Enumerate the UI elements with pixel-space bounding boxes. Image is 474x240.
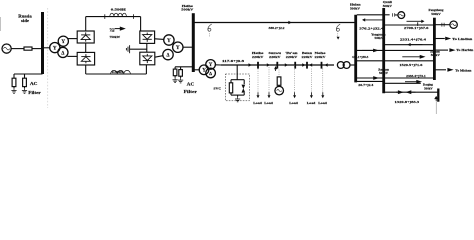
wire V4 to T2 [155,56,164,58]
injection arrow (up) [274,66,277,69]
svg-text:Y: Y [167,38,171,44]
power flow arrow (left) [309,63,312,66]
bus: Xunke 220kV [294,62,296,69]
svg-text:Y: Y [61,39,65,45]
tick junction [133,14,135,19]
svg-text:20.7+j2.4: 20.7+j2.4 [358,83,374,87]
wire to ground [237,95,239,97]
svg-text:Filter: Filter [28,90,40,95]
svg-text:500kV: 500kV [181,8,194,12]
svg-text:Load: Load [264,101,273,105]
wire [174,76,176,78]
SVC dashed enclosure [225,74,249,101]
SVC reactor [229,83,232,93]
wire T1 to bridge V2 [67,55,77,57]
wire filter branch 2 [24,74,26,78]
wire [180,67,182,70]
svg-text:0.596H: 0.596H [111,8,127,12]
wire source to impedance [11,48,24,50]
power flow arrow (right) [267,63,270,66]
shunt reactor (Hulan end) [336,24,340,31]
ground filter3 [174,78,176,80]
wire V1 to DC pole line [85,17,87,31]
scan artifact: faint dashed rule [47,8,49,108]
svg-text:117.6+j9.8: 117.6+j9.8 [222,59,245,63]
wire DC line to bridge V3 [140,17,142,31]
bus: Russia AC bus [41,12,44,74]
converter bridge V1 (rectifier upper) [77,31,94,43]
bus: Longzhen 220kV [321,62,323,69]
wire filter header (right) [175,66,192,68]
bus: Heihe 500kV [192,13,195,72]
flow arrow (Qunli to Hanan) [420,55,426,59]
thyristor valve in V4 [143,56,152,61]
220kV transmission line [221,64,334,66]
load feeder 1 [257,69,259,93]
ground DC midpoint [129,45,131,53]
wire impedance to bus [32,48,43,50]
line Qunli-Fangzheng bottom [385,91,439,93]
svg-text:Filter: Filter [184,89,197,94]
load arrow (down) [310,95,313,98]
wire V3 to T2 [155,38,165,41]
svg-text:Δ: Δ [61,51,64,56]
wire T3 to 220kV line [215,64,221,66]
shunt reactor (Heihe end) [208,24,212,31]
wire filter header [14,73,43,75]
wire T2 to Heihe bus [183,46,193,48]
wire [243,80,245,84]
wire SVC bottom join [231,94,244,96]
generator G1 with unit transformer [392,13,394,16]
filter element F4 [179,70,183,77]
wire [174,67,176,69]
wire [230,93,232,95]
svg-text:To Harbin: To Harbin [456,48,473,52]
line Hulan-Qunli [357,14,383,16]
line Qunli-Daqing [385,82,421,84]
svg-text:To Lindian: To Lindian [452,37,472,41]
svg-text:Δ: Δ [209,71,212,76]
bus: Qunli 500kV [382,8,385,93]
wire SVC branch header [231,79,244,81]
load arrow (down) [257,95,260,98]
wire [13,87,15,89]
load arrow (down) [321,95,324,98]
line Hulan-Qunli-Fangzheng mid [357,49,434,51]
converter bridge V4 (inverter lower) [140,52,155,65]
filter element F3 [173,69,177,76]
svg-text:500kV: 500kV [383,4,393,8]
wire: flow arrow shaft [362,49,374,51]
power flow arrow (right) [302,63,305,66]
svg-text:500kV: 500kV [375,36,384,40]
svg-text:SVC: SVC [214,87,222,91]
power flow arrow (right) [249,63,252,66]
load feeder 2 [268,65,270,93]
svg-text:500kV: 500kV [431,12,441,16]
wire T4 to Hulan bus [350,64,355,66]
bus: south stub [437,89,439,102]
line Hulan-Fangzheng [357,60,434,62]
flow arrow (left) on bottom line [406,90,412,94]
svg-text:220kV: 220kV [252,55,264,59]
svg-text:Y: Y [53,45,57,51]
ground filter4 [180,78,182,80]
svg-text:414.1+j38.3: 414.1+j38.3 [352,55,369,59]
svg-text:AC: AC [30,81,38,86]
svg-text:500kV: 500kV [424,86,433,90]
DC return line [86,73,147,75]
line Hulan-Fangzheng lower [357,77,434,79]
bus: Sunwu 220kV [276,62,278,69]
bus: Fangzheng 500kV [433,18,436,80]
flow arrow to Mishan [447,68,453,72]
load feeder 4 [310,69,312,93]
wire Fangzheng bus to plant G2 [436,24,451,26]
converter bridge V2 (rectifier lower) [77,52,94,65]
wire V2 to DC return [85,65,87,74]
AC source G_russia [2,44,11,53]
line Fangzheng to Harbin [436,49,449,51]
ground SVC [237,97,239,99]
flow arrow on lower line [373,76,379,80]
filter element F2 [23,78,27,86]
svg-text:500kV: 500kV [431,53,441,57]
filter element F1 [12,78,16,86]
load feeder 3 [294,65,296,93]
generator G3 [275,86,284,95]
svg-text:500kV: 500kV [379,71,389,75]
transformer T4 (220/500kV two-winding) [337,62,344,69]
wire filter branch 1 [13,74,15,78]
generator step-up transformer [277,77,281,85]
wire return to bridge V4 [145,65,147,74]
svg-text:220kV: 220kV [286,55,298,59]
svg-text:To Mishan: To Mishan [455,68,471,72]
SVC thyristor pair (TCR) [242,85,246,89]
wire bus to T1 [44,47,50,49]
500kV transmission line Heihe-Hulan [195,22,356,24]
svg-text:2331.4+j76.4: 2331.4+j76.4 [400,38,427,42]
flow arrow on mid line [373,49,379,53]
wire [180,76,182,78]
wire [230,80,232,83]
svg-text:1529.5+j71.6: 1529.5+j71.6 [399,63,423,67]
svg-text:Load: Load [289,101,298,105]
svg-text:side: side [21,18,29,23]
source impedance Z [24,47,32,50]
wire T1 to bridge V1 [68,38,78,40]
svg-text:7Ω: 7Ω [110,29,115,33]
svg-text:2709.1+j37.6: 2709.1+j37.6 [404,26,429,30]
wire bus to T3 [195,69,200,71]
load arrow (down) [293,95,296,98]
wire [24,87,26,89]
flow arrow to Harbin [449,48,455,52]
svg-text:AC: AC [187,81,195,86]
svg-text:376.2+j32.4: 376.2+j32.4 [359,26,384,30]
wire V1-V2 series connection [85,43,87,52]
DC pole line [86,16,141,18]
svg-text:220kV: 220kV [302,55,314,59]
svg-text:Load: Load [307,101,316,105]
wire 220kV line to SVC [236,65,238,80]
smoothing reactor L2 [111,70,131,74]
line Qunli-Fangzheng 2 [385,44,434,46]
bus: Heihe 220kV [257,62,259,69]
flow arrow to Lindian [445,37,451,41]
scan artifact: page edge [0,17,2,31]
power flow arrow (left) [362,18,365,21]
wire Qunli bus to plant G1 [385,14,390,16]
power flow arrow (right) [285,63,288,66]
ground filter2 [24,88,26,90]
tick junction [417,22,419,26]
flow arrow (right) on bottom line [398,90,404,94]
thyristor valve in V3 [143,35,152,40]
smoothing reactor L1 [110,13,127,16]
svg-text:1320.8+j83.3: 1320.8+j83.3 [395,100,420,104]
line Fangzheng to Lindian [436,38,445,40]
wire [243,93,245,95]
bus: Hulan 500kV [354,15,357,83]
converter bridge V3 (inverter upper) [140,31,155,43]
line Hulan-Qunli lower 2 [357,80,383,82]
thyristor valve in V2 [81,57,90,62]
bus: Beian 220kV [306,62,308,69]
thyristor valve in V1 [81,35,90,40]
wire V3-V4 series connection [146,43,148,52]
line Qunli-Fangzheng [385,24,434,26]
load feeder 5 [322,69,324,93]
svg-text:Y: Y [176,45,180,51]
power flow arrow (left) [407,43,410,46]
power flow arrow (right) [421,20,424,23]
svg-text:220kV: 220kV [315,55,327,59]
ground filter1 [13,88,15,90]
load arrow (down) [268,95,271,98]
svg-text:500kV: 500kV [350,7,361,11]
tick junction [104,14,106,19]
svg-text:0.596H: 0.596H [112,70,124,74]
power flow arrow (left) [325,63,328,66]
svg-text:Load: Load [253,101,262,105]
svg-text:750kW: 750kW [110,35,121,39]
svg-text:388.2+j2.2: 388.2+j2.2 [269,26,286,30]
svg-text:Δ: Δ [166,54,169,59]
wire ground to V3-V4 midpoint [130,48,147,50]
svg-text:Y: Y [209,63,213,68]
line Fangzheng to Mishan [436,69,447,71]
svg-text:220kV: 220kV [269,55,281,59]
flow arrow (to Daqing) [416,80,422,84]
svg-text:Load: Load [318,101,327,105]
power flow arrow (right) [288,21,291,24]
injection arrow (up) [434,96,438,99]
DC current arrow [120,27,126,31]
